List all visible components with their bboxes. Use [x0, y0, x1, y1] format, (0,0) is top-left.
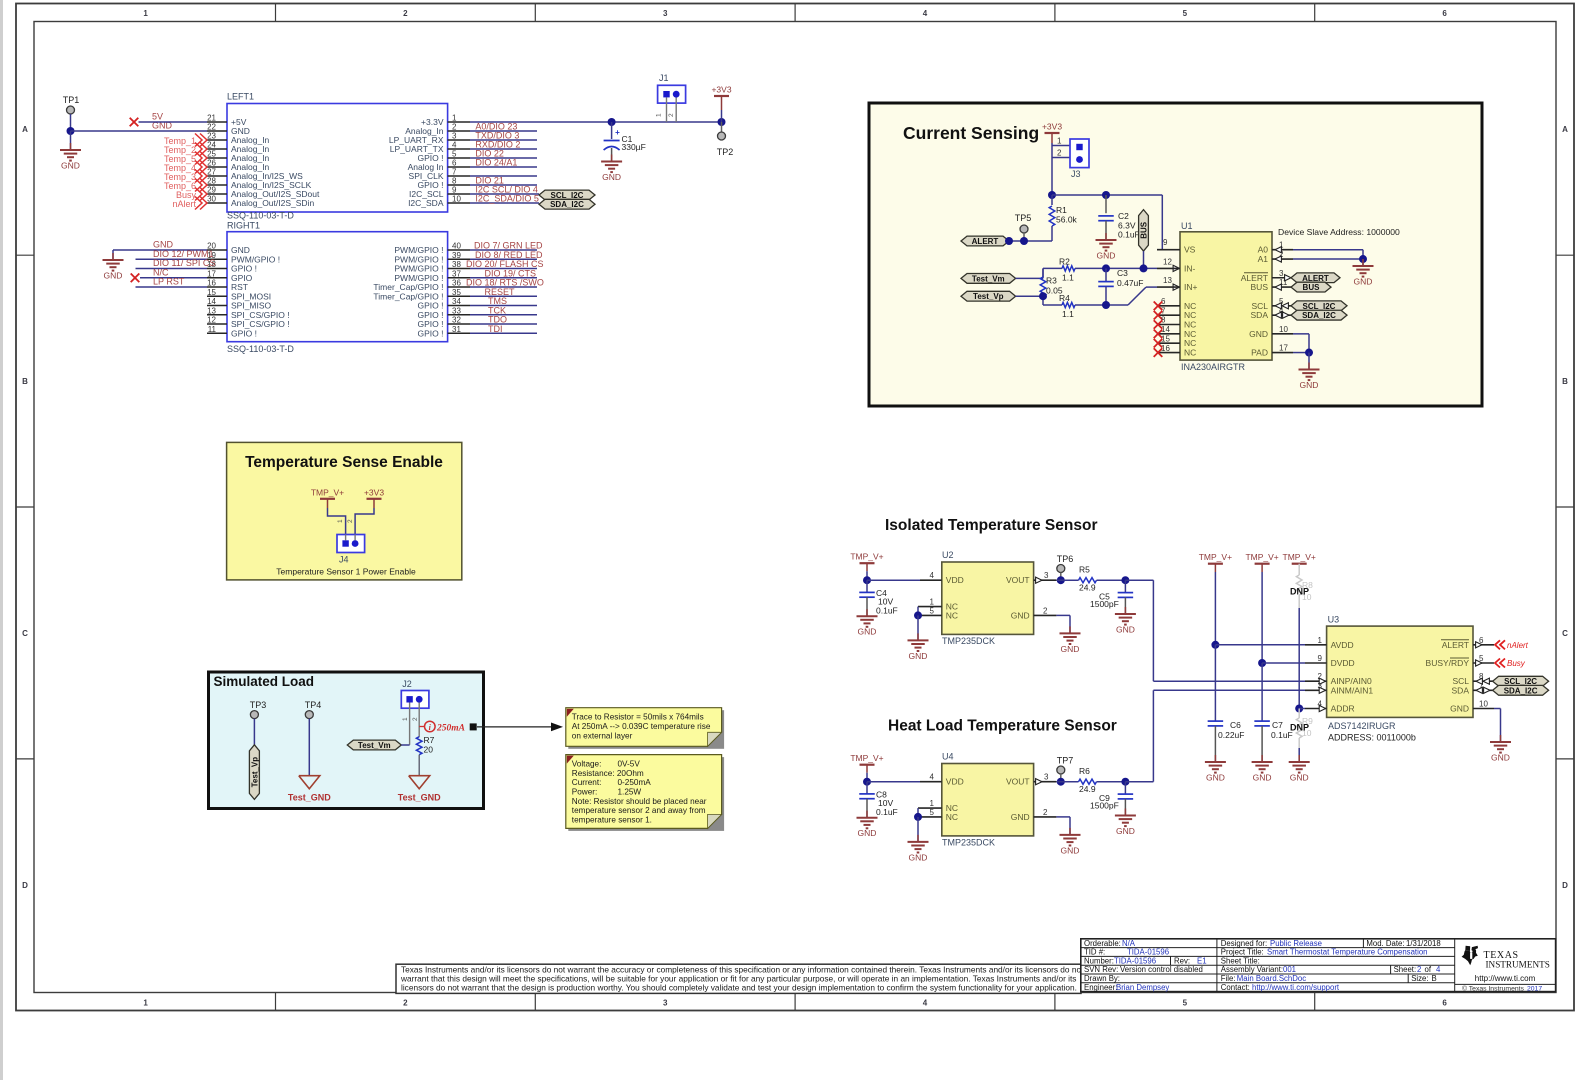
- wire U2 GND pin 2 to ground: [1056, 614, 1070, 616]
- svg-text:4: 4: [930, 571, 935, 580]
- net label Temp_2 with no-ERC marker on pin 24: [195, 143, 202, 156]
- svg-text:4: 4: [452, 141, 457, 150]
- resistor R1: [1051, 195, 1053, 205]
- section box Current Sensing: [869, 103, 1482, 406]
- wire RIGHT1 pin 32 net TDO: [470, 323, 537, 325]
- svg-text:NC: NC: [946, 610, 958, 620]
- svg-text:Temperature Sensor 1 Power Ena: Temperature Sensor 1 Power Enable: [276, 567, 416, 577]
- svg-text:17: 17: [207, 269, 216, 278]
- U1 NC pin 6 with no-connect X: [1157, 305, 1180, 307]
- svg-text:6: 6: [1442, 9, 1447, 18]
- pin 20 RIGHT1: [207, 249, 227, 251]
- resistor R2: [1043, 267, 1062, 269]
- svg-text:File:: File:: [1221, 974, 1236, 983]
- svg-text:GND: GND: [1011, 812, 1030, 822]
- wire LEFT1 pin 5: [470, 157, 537, 159]
- svg-text:1: 1: [452, 114, 457, 123]
- svg-text:AVDD: AVDD: [1331, 640, 1354, 650]
- svg-text:At 250mA --> 0.039C temperatur: At 250mA --> 0.039C temperature rise: [572, 722, 711, 731]
- U1 pin 13 IN+ arrow: [1173, 284, 1179, 290]
- pin 6 LEFT1: [448, 166, 470, 168]
- svg-text:TP5: TP5: [1015, 213, 1032, 223]
- svg-text:SSQ-110-03-T-D: SSQ-110-03-T-D: [227, 344, 294, 354]
- svg-text:C7: C7: [1272, 720, 1283, 730]
- junction dot TP7: [1057, 778, 1065, 786]
- svg-text:26: 26: [207, 159, 216, 168]
- svg-text:GND: GND: [1290, 773, 1309, 783]
- wire NC pins to ground U4: [917, 808, 919, 817]
- node square to note: [470, 723, 477, 730]
- ground symbol at C6: [1214, 755, 1216, 762]
- svg-text:Resistance: 20Ohm: Resistance: 20Ohm: [572, 769, 644, 778]
- wire LEFT1 pin 10: [470, 202, 539, 204]
- junction dot AVDD: [1211, 641, 1219, 649]
- svg-text:TMP_V+: TMP_V+: [311, 487, 344, 497]
- svg-text:GND: GND: [104, 271, 123, 281]
- ground symbol at NC pins U4: [917, 835, 919, 842]
- svg-text:J3: J3: [1071, 169, 1081, 179]
- note load parameters: [568, 757, 724, 831]
- svg-text:4: 4: [923, 9, 928, 18]
- svg-text:5: 5: [930, 606, 935, 615]
- svg-text:Temperature Sense Enable: Temperature Sense Enable: [245, 454, 443, 471]
- resistor R8 DNP (ghost): [1298, 564, 1300, 575]
- U2 VDD pin 4: [920, 579, 942, 581]
- svg-text:GND: GND: [1300, 380, 1319, 390]
- wire TMP_V+ to U4 VDD: [867, 781, 920, 783]
- ground symbol left of RIGHT1: [112, 250, 114, 260]
- pin 4 LEFT1: [448, 148, 470, 150]
- svg-text:TID #:: TID #:: [1084, 948, 1105, 957]
- svg-text:B: B: [1562, 377, 1568, 386]
- svg-text:ADS7142IRUGR: ADS7142IRUGR: [1328, 721, 1396, 731]
- svg-text:GND: GND: [1450, 704, 1469, 714]
- U1 VS pin 9: [1157, 249, 1180, 251]
- svg-text:U2: U2: [942, 550, 954, 560]
- power symbol +3V3 in enable box: [367, 498, 382, 500]
- wire U4 GND pin 2 to ground: [1056, 816, 1070, 818]
- junction dot TMP_V+ U2: [863, 576, 871, 584]
- page left edge strip: [0, 0, 3, 1080]
- port ALERT (current sensing left): [961, 236, 1009, 246]
- svg-text:U4: U4: [942, 752, 954, 762]
- svg-text:Simulated Load: Simulated Load: [214, 674, 315, 689]
- svg-text:DNP: DNP: [1290, 723, 1309, 733]
- pin 33 RIGHT1: [448, 314, 470, 316]
- svg-text:SDA_I2C: SDA_I2C: [1504, 686, 1538, 695]
- svg-text:250mA: 250mA: [436, 724, 465, 734]
- svg-text:BUS: BUS: [1303, 283, 1321, 292]
- U3 input arrows: [1319, 678, 1325, 684]
- svg-text:1: 1: [930, 799, 935, 808]
- svg-text:7: 7: [452, 168, 457, 177]
- pin 21 LEFT1: [207, 121, 227, 123]
- svg-text:Public Release: Public Release: [1270, 939, 1322, 948]
- wire TP1 to GND net: [70, 114, 72, 131]
- U1 PAD pin 17: [1272, 352, 1293, 354]
- svg-text:16: 16: [1161, 344, 1170, 353]
- svg-text:1.1: 1.1: [1062, 309, 1074, 319]
- U2 GND pin 2: [1034, 614, 1057, 616]
- svg-text:12: 12: [1163, 257, 1172, 266]
- svg-text:TP2: TP2: [717, 147, 734, 157]
- svg-text:1: 1: [143, 9, 148, 18]
- svg-text:2: 2: [403, 998, 408, 1007]
- wire +3.3V rail from LEFT1 pin 1: [470, 121, 722, 123]
- ground symbol at C9: [1124, 809, 1126, 816]
- svg-text:GND: GND: [858, 627, 877, 637]
- svg-text:0.22uF: 0.22uF: [1218, 730, 1244, 740]
- U1 SCL pin 5: [1272, 305, 1293, 307]
- J2 pin leads: [409, 703, 411, 745]
- U3 AINM/AIN1 pin 3: [1305, 689, 1327, 691]
- wire TP3 to Test_Vp port: [253, 719, 255, 745]
- IC U3 ADS7142IRUGR body: [1327, 626, 1473, 717]
- svg-text:Test_Vm: Test_Vm: [972, 274, 1005, 283]
- svg-text:TP4: TP4: [305, 700, 322, 710]
- svg-text:I2C_SDA/DIO 5: I2C_SDA/DIO 5: [475, 194, 539, 204]
- U4 GND pin 2: [1034, 816, 1057, 818]
- wire top rail to C2 and VS: [1052, 194, 1162, 196]
- port Test_Vm (simulated load): [347, 740, 401, 750]
- net label Temp_1 with no-ERC marker on pin 23: [195, 134, 202, 147]
- svg-text:GPIO !: GPIO !: [231, 328, 257, 338]
- svg-text:Test_Vp: Test_Vp: [250, 757, 259, 788]
- svg-text:Heat Load Temperature Sensor: Heat Load Temperature Sensor: [888, 717, 1117, 734]
- port Test_Vp (vertical): [249, 745, 259, 800]
- svg-text:GPIO !: GPIO !: [418, 328, 444, 338]
- resistor R5: [1056, 579, 1078, 581]
- U1 NC pin 14 with no-connect X: [1157, 333, 1180, 335]
- svg-text:nAlert: nAlert: [172, 199, 196, 209]
- pin 37 RIGHT1: [448, 277, 470, 279]
- svg-text:9: 9: [1163, 238, 1168, 247]
- svg-text:TMP_V+: TMP_V+: [850, 552, 883, 562]
- svg-text:1: 1: [143, 998, 148, 1007]
- svg-text:R3: R3: [1046, 276, 1057, 286]
- svg-text:29: 29: [207, 186, 216, 195]
- wire LEFT1 pin 4: [470, 148, 537, 150]
- title block: [1081, 939, 1556, 992]
- capacitor C5: [1124, 580, 1126, 592]
- svg-text:BUS: BUS: [1140, 221, 1149, 239]
- U1 BUS pin 11: [1272, 286, 1293, 288]
- wire AINP to U3: [1153, 680, 1305, 682]
- U4 NC pin 1: [918, 807, 942, 809]
- svg-text:001: 001: [1283, 965, 1296, 974]
- svg-text:5: 5: [930, 808, 935, 817]
- pointer arrow to note: [477, 726, 552, 728]
- svg-text:IN-: IN-: [1184, 263, 1196, 273]
- U3 DVDD pin 9: [1305, 662, 1327, 664]
- U1 NC pin 16 with no-connect X: [1157, 352, 1180, 354]
- pin 40 RIGHT1: [448, 249, 470, 251]
- IC U4 TMP235DCK body: [942, 764, 1034, 836]
- resistor R9 DNP (ghost): [1298, 709, 1300, 719]
- pin 36 RIGHT1: [448, 286, 470, 288]
- pin 30 LEFT1: [207, 202, 227, 204]
- header J4: [337, 535, 365, 553]
- power symbol +3V3 in current sensing: [1045, 132, 1060, 134]
- U4 NC pin 5: [918, 816, 942, 818]
- svg-text:+3V3: +3V3: [1042, 122, 1062, 132]
- wire R7 to Test_GND: [418, 755, 420, 776]
- svg-text:TMP_V+: TMP_V+: [1245, 552, 1278, 562]
- pin 26 LEFT1: [207, 166, 227, 168]
- svg-text:A: A: [22, 125, 28, 134]
- svg-text:TP1: TP1: [63, 95, 80, 105]
- svg-text:http://www.ti.com/support: http://www.ti.com/support: [1252, 983, 1340, 992]
- svg-text:10: 10: [452, 195, 461, 204]
- svg-text:1: 1: [402, 717, 409, 721]
- current info marker 250mA: [419, 726, 424, 728]
- wire RIGHT1 pin 38 net DIO 20/ FLASH CS: [470, 268, 537, 270]
- svg-text:A: A: [1562, 125, 1568, 134]
- U3 SDA pin 7: [1473, 689, 1494, 691]
- svg-text:R7: R7: [424, 735, 435, 745]
- svg-text:LP RST: LP RST: [153, 277, 185, 287]
- wire GND to RIGHT1 pin 20: [113, 249, 207, 251]
- svg-text:VOUT: VOUT: [1006, 777, 1030, 787]
- svg-text:VS: VS: [1184, 245, 1196, 255]
- junction dot BUS/IN-: [1140, 264, 1148, 272]
- svg-text:D: D: [1562, 881, 1568, 890]
- svg-text:© Texas Instruments: © Texas Instruments: [1462, 984, 1525, 992]
- svg-text:temperature sensor 1.: temperature sensor 1.: [572, 815, 652, 824]
- svg-text:Designed for:: Designed for:: [1221, 939, 1267, 948]
- svg-text:0-250mA: 0-250mA: [618, 778, 652, 787]
- U3 AINP/AIN0 pin 2: [1305, 680, 1327, 682]
- capacitor C6: [1214, 645, 1216, 721]
- U3 BUSY/RDY pin 5: [1473, 662, 1494, 664]
- svg-text:15: 15: [1161, 334, 1170, 343]
- svg-text:TDI: TDI: [488, 324, 503, 334]
- wire Test_Vm to R2/R3 node: [1016, 277, 1043, 279]
- pin 16 RIGHT1: [207, 286, 227, 288]
- power symbol TMP_V+ (AVDD): [1208, 563, 1223, 565]
- net label Temp_5 with no-ERC marker on pin 25: [195, 152, 202, 165]
- svg-text:Device Slave Address: 1000000: Device Slave Address: 1000000: [1278, 227, 1400, 237]
- svg-text:Analog_Out/I2S_SDin: Analog_Out/I2S_SDin: [231, 198, 314, 208]
- svg-text:10: 10: [1479, 700, 1488, 709]
- J1 pin leads: [666, 98, 668, 123]
- svg-text:GND: GND: [1354, 277, 1373, 287]
- svg-text:DVDD: DVDD: [1331, 658, 1355, 668]
- svg-text:NC: NC: [946, 812, 958, 822]
- pin 9 LEFT1: [448, 193, 470, 195]
- svg-text:1: 1: [1057, 137, 1062, 146]
- svg-text:3: 3: [452, 132, 457, 141]
- svg-text:Mod. Date:: Mod. Date:: [1366, 939, 1404, 948]
- junction dot A1/GND: [1359, 255, 1367, 263]
- wire 5V to LEFT1 pin 21: [139, 121, 208, 123]
- svg-text:33: 33: [452, 306, 461, 315]
- wire U1 PAD pin 17: [1293, 352, 1309, 354]
- U1 pin 12 IN- arrow: [1173, 265, 1179, 271]
- pin 35 RIGHT1: [448, 295, 470, 297]
- svg-text:Test_GND: Test_GND: [288, 793, 331, 803]
- svg-text:39: 39: [452, 251, 461, 260]
- svg-text:38: 38: [452, 260, 461, 269]
- resistor R6: [1056, 781, 1078, 783]
- svg-text:4: 4: [1436, 965, 1441, 974]
- TI logo: [1462, 946, 1478, 966]
- U1 NC pin 7 with no-connect X: [1157, 314, 1180, 316]
- svg-text:12: 12: [207, 316, 216, 325]
- svg-text:Current:: Current:: [572, 778, 602, 787]
- svg-text:U1: U1: [1181, 221, 1193, 231]
- svg-text:28: 28: [207, 177, 216, 186]
- wire RIGHT1 pin 33 net TCK: [470, 314, 537, 316]
- svg-text:GND: GND: [1061, 644, 1080, 654]
- junction dot DVDD: [1258, 659, 1266, 667]
- svg-text:TMP_V+: TMP_V+: [1199, 552, 1232, 562]
- U1 A0/A1 input arrows: [1275, 247, 1281, 253]
- svg-text:23: 23: [207, 132, 216, 141]
- svg-text:GND: GND: [1011, 610, 1030, 620]
- power symbol TMP_V+ (ADDR, DNP divider): [1292, 563, 1307, 565]
- svg-text:ALERT: ALERT: [1302, 274, 1329, 283]
- capacitor C4 at U2 input: [866, 580, 868, 592]
- svg-text:R2: R2: [1059, 256, 1070, 266]
- port BUS at U1: [1291, 282, 1331, 292]
- svg-text:Project Title:: Project Title:: [1221, 948, 1264, 957]
- svg-text:+3V3: +3V3: [364, 487, 384, 497]
- wire RIGHT1 pin 39 net DIO 8/ RED LED: [470, 258, 537, 260]
- svg-text:GND: GND: [1116, 625, 1135, 635]
- U4 VDD pin 4: [920, 781, 942, 783]
- capacitor C9: [1124, 782, 1126, 794]
- svg-text:13: 13: [1163, 276, 1172, 285]
- wire RIGHT1 pin 36 net DIO 18/ RTS /SWO: [470, 286, 537, 288]
- U3 ALERT pin 6: [1473, 644, 1494, 646]
- svg-text:TP3: TP3: [250, 700, 267, 710]
- svg-text:330µF: 330µF: [622, 142, 646, 152]
- svg-text:Isolated Temperature Sensor: Isolated Temperature Sensor: [885, 517, 1097, 534]
- pin 10 LEFT1: [448, 202, 470, 204]
- U3 SDA arrows: [1476, 687, 1482, 693]
- svg-text:N/A: N/A: [1122, 939, 1136, 948]
- U3 SCL arrows: [1476, 678, 1482, 684]
- U1 NC pin 8 with no-connect X: [1157, 324, 1180, 326]
- net label Temp_3 with no-ERC marker on pin 27: [195, 170, 202, 183]
- U1 ALERT pin 3: [1272, 277, 1293, 279]
- wire LEFT1 pin 7: [470, 175, 537, 177]
- svg-text:8: 8: [452, 177, 457, 186]
- svg-text:Sheet Title:: Sheet Title:: [1221, 956, 1260, 965]
- svg-text:10: 10: [1279, 325, 1288, 334]
- wire RIGHT1 pin 34 net TMS: [470, 305, 537, 307]
- power symbol TMP_V+ in enable box: [320, 498, 335, 500]
- svg-text:Contact:: Contact:: [1221, 983, 1250, 992]
- section box Temperature Sense Enable: [227, 442, 462, 580]
- svg-text:GND: GND: [1206, 773, 1225, 783]
- pin 8 LEFT1: [448, 184, 470, 186]
- svg-text:Test_GND: Test_GND: [398, 793, 441, 803]
- svg-text:37: 37: [452, 269, 461, 278]
- ground symbol at input cap U4: [866, 811, 868, 818]
- svg-text:VOUT: VOUT: [1006, 575, 1030, 585]
- pin 27 LEFT1: [207, 175, 227, 177]
- svg-text:VDD: VDD: [946, 575, 964, 585]
- svg-text:R5: R5: [1079, 565, 1090, 575]
- wire A1 to GND: [1293, 258, 1363, 260]
- junction dot R1 top: [1048, 191, 1056, 199]
- svg-text:0V-5V: 0V-5V: [618, 760, 641, 769]
- pin 24 LEFT1: [207, 148, 227, 150]
- svg-text:1: 1: [1318, 636, 1323, 645]
- svg-text:SVN Rev:: SVN Rev:: [1084, 965, 1118, 974]
- svg-text:17: 17: [1279, 344, 1288, 353]
- junction dot PAD/GND: [1305, 349, 1313, 357]
- pin 34 RIGHT1: [448, 305, 470, 307]
- svg-text:1500pF: 1500pF: [1090, 801, 1119, 811]
- svg-text:B: B: [22, 377, 28, 386]
- wire Test_Vp to R3/R4 node: [1016, 295, 1043, 297]
- svg-text:DNP: DNP: [1290, 587, 1309, 597]
- connector RIGHT1 body: [227, 232, 448, 342]
- wire LP RST to pin 16: [136, 286, 208, 288]
- svg-text:INA230AIRGTR: INA230AIRGTR: [1181, 362, 1246, 372]
- U1 ALERT output arrow: [1285, 275, 1291, 281]
- svg-text:BUSY/RDY: BUSY/RDY: [1426, 658, 1470, 668]
- svg-text:4: 4: [930, 773, 935, 782]
- resistor R3: [1042, 268, 1044, 277]
- svg-text:15: 15: [207, 288, 216, 297]
- capacitor C3: [1105, 268, 1107, 281]
- svg-text:2: 2: [1043, 808, 1048, 817]
- resistor R7: [416, 737, 422, 755]
- pin 39 RIGHT1: [448, 258, 470, 260]
- svg-text:C: C: [1562, 629, 1568, 638]
- svg-text:Main Board.SchDoc: Main Board.SchDoc: [1237, 974, 1306, 983]
- wire R9 to ground: [1298, 748, 1300, 762]
- wire LEFT1 pin 6: [470, 166, 537, 168]
- wire RIGHT1 pin 31 net TDI: [470, 332, 537, 334]
- svg-text:ALERT: ALERT: [1442, 640, 1469, 650]
- wire A0 to GND: [1293, 249, 1363, 251]
- pin 17 RIGHT1: [207, 277, 227, 279]
- port SCL_I2C at U3: [1493, 676, 1549, 686]
- wire isolated sensor to U3 AINP: [1125, 579, 1153, 581]
- svg-text:2017: 2017: [1527, 985, 1542, 992]
- net label Temp_4 with no-ERC marker on pin 26: [195, 161, 202, 174]
- svg-text:Sheet:: Sheet:: [1394, 965, 1417, 974]
- wire NC pins to ground U2: [917, 607, 919, 616]
- junction dot ADDR: [1295, 705, 1303, 713]
- svg-text:A1: A1: [1258, 254, 1269, 264]
- wire DIO 12/PWM1 to pin 19: [136, 258, 208, 260]
- U4 VOUT pin 3: [1034, 781, 1057, 783]
- svg-text:6: 6: [1442, 998, 1447, 1007]
- pin 1 LEFT1: [448, 121, 470, 123]
- wire down to U1 VS: [1161, 195, 1163, 250]
- pin 29 LEFT1: [207, 193, 227, 195]
- svg-text:nAlert: nAlert: [1507, 641, 1529, 650]
- pin 15 RIGHT1: [207, 295, 227, 297]
- junction dot TP2/+3V3: [718, 118, 726, 126]
- svg-text:+3V3: +3V3: [711, 85, 731, 95]
- svg-text:1.1: 1.1: [1062, 272, 1074, 282]
- svg-text:5: 5: [452, 150, 457, 159]
- svg-text:Current Sensing: Current Sensing: [903, 123, 1039, 143]
- U2 VOUT pin 3: [1034, 579, 1057, 581]
- svg-text:INSTRUMENTS: INSTRUMENTS: [1486, 959, 1550, 969]
- U3 SCL pin 8: [1473, 680, 1494, 682]
- U1 SDA pin 4: [1272, 314, 1293, 316]
- wire GND to LEFT1 pin 22: [71, 130, 208, 132]
- svg-text:C3: C3: [1117, 268, 1128, 278]
